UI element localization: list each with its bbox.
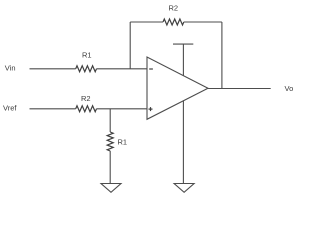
- wire feedback top right: [184, 21, 222, 23]
- wire R2 to op-amp non-inverting input: [97, 108, 148, 110]
- wire output: [208, 88, 271, 90]
- svg-text:R2: R2: [169, 3, 179, 12]
- op-amp U1: [147, 57, 208, 119]
- wire R1 to ground: [109, 151, 111, 184]
- resistor R2 (feedback): [163, 19, 184, 25]
- ground (op-amp): [174, 184, 194, 193]
- ground (divider): [101, 184, 121, 193]
- op-amp inverting input mark: [149, 68, 153, 70]
- wire V- stem to ground: [182, 101, 184, 184]
- wire junction to R1 (divider): [109, 109, 111, 132]
- power V+ bar: [173, 43, 193, 45]
- svg-text:R2: R2: [81, 94, 91, 103]
- svg-text:R1: R1: [118, 138, 128, 147]
- wire Vin to R1: [30, 68, 76, 70]
- wire feedback top left: [130, 21, 163, 23]
- svg-text:Vin: Vin: [5, 64, 16, 73]
- wire R1 to op-amp inverting input: [97, 68, 148, 70]
- resistor R1 (divider): [107, 132, 113, 151]
- svg-text:R1: R1: [82, 50, 92, 59]
- svg-text:Vo: Vo: [285, 84, 294, 93]
- wire feedback right vertical to output: [221, 22, 223, 89]
- resistor R2 (input): [76, 106, 97, 112]
- op-amp non-inverting input mark: [149, 107, 153, 111]
- wire feedback left vertical: [129, 22, 131, 69]
- resistor R1: [76, 66, 97, 72]
- wire Vref to R2: [30, 108, 76, 110]
- wire V+ stem to op-amp: [182, 44, 184, 76]
- svg-text:Vref: Vref: [3, 104, 17, 113]
